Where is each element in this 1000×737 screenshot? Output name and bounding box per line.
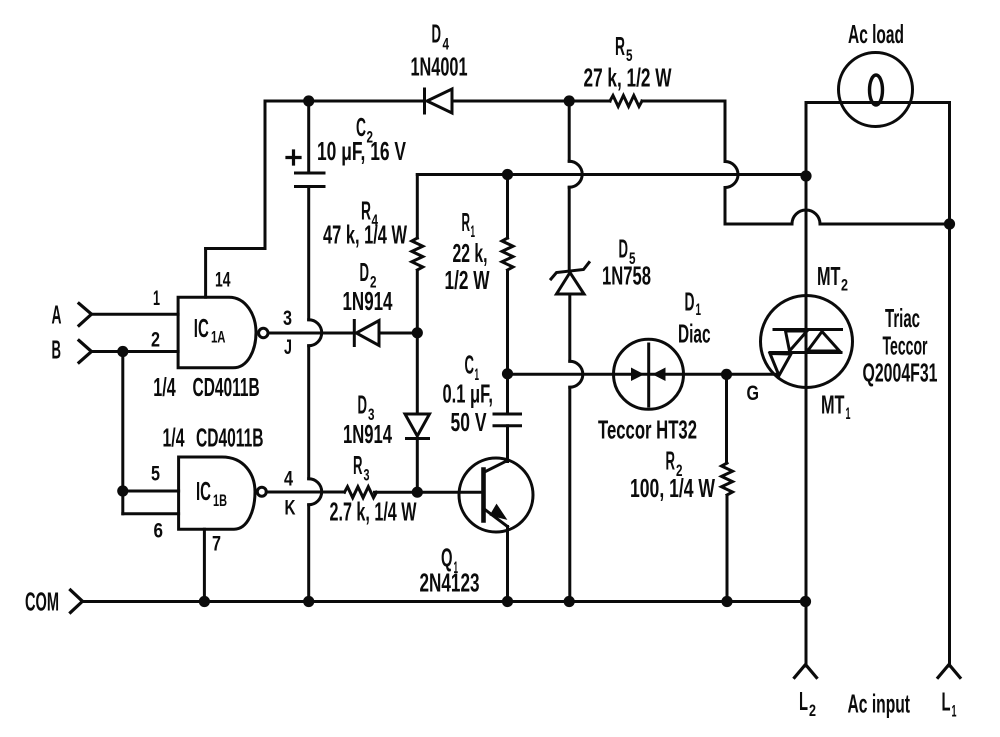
svg-text:2.7 k, 1/4 W: 2.7 k, 1/4 W: [330, 497, 417, 527]
lamp circle Ac load: [839, 53, 913, 127]
capacitor C2 plus sign: [287, 151, 300, 164]
svg-text:L: L: [799, 686, 808, 716]
junction node lamp loop 176: [800, 170, 811, 181]
wire G column to R2: [725, 374, 728, 463]
wire 224 row right part: [820, 223, 950, 226]
triac circle: [761, 296, 853, 388]
wire R4 to D2 junction: [416, 272, 419, 414]
junction node diac row C1: [502, 368, 513, 379]
wire pin7 to COM: [203, 529, 206, 601]
junction node rail zener: [564, 596, 575, 607]
IC1B output bubble: [257, 487, 266, 496]
wire zener column from top rail: [568, 101, 571, 161]
wire C2 column middle part: [307, 346, 310, 479]
zener diode D5 cathode bar: [551, 263, 589, 280]
svg-text:Ac load: Ac load: [848, 19, 904, 49]
wire hop over IC1B output row: [309, 479, 322, 505]
svg-text:4: 4: [284, 468, 293, 491]
junction node D2 R4 D3: [412, 327, 423, 338]
resistor R5: [610, 96, 642, 107]
IC1A output bubble: [259, 328, 268, 337]
wire D5 down to hop: [568, 294, 571, 361]
capacitor C2 plates: [296, 173, 325, 187]
wire hop of zener column over diac row: [570, 361, 583, 387]
wire top-left vertical from rail down: [264, 101, 267, 249]
svg-text:Triac: Triac: [885, 303, 920, 333]
svg-text:2: 2: [809, 701, 816, 720]
wire R4 column top corner: [416, 175, 419, 239]
terminal A chevron: [79, 304, 92, 326]
svg-text:R: R: [615, 31, 625, 61]
wire C2 column lower part to COM: [307, 505, 310, 602]
svg-text:K: K: [285, 497, 296, 520]
triac bottom bar: [770, 351, 841, 354]
svg-text:2: 2: [151, 329, 160, 352]
wire C1 to Q1 collector: [506, 426, 509, 462]
svg-text:COM: COM: [25, 587, 59, 617]
diode D3 cathode bar: [407, 437, 429, 440]
diac D1 circle: [614, 339, 684, 409]
wire R5 branch vertical lower: [724, 188, 727, 225]
resistor R4: [412, 238, 423, 270]
wire pin6: [123, 512, 179, 515]
svg-text:100, 1/4 W: 100, 1/4 W: [630, 473, 715, 503]
wire D2 to junction: [379, 332, 417, 335]
resistor R1: [502, 238, 513, 270]
junction node rail Q1: [502, 596, 513, 607]
svg-text:Diac: Diac: [678, 319, 711, 349]
wire lamp row through Ac load: [806, 101, 950, 104]
wire IC1A output row: [268, 332, 354, 335]
svg-text:R: R: [462, 207, 471, 237]
diode D4 triangle: [427, 89, 452, 113]
diac left arrowhead: [633, 370, 642, 379]
svg-text:1/4: 1/4: [163, 423, 185, 453]
svg-text:2N4123: 2N4123: [420, 568, 480, 598]
svg-text:1B: 1B: [213, 491, 227, 510]
wire D3 to base junction: [416, 439, 419, 493]
wire hop of 224 row over triac column: [792, 210, 820, 224]
svg-text:D: D: [358, 390, 368, 420]
wire B branch vertical: [121, 352, 124, 514]
svg-text:22 k,: 22 k,: [453, 238, 488, 268]
svg-text:MT: MT: [817, 261, 841, 291]
wire hop over IC1A output row: [309, 320, 322, 346]
diac right arrowhead: [656, 370, 665, 379]
svg-text:1N758: 1N758: [602, 261, 651, 291]
wire input A pin1: [92, 313, 179, 316]
wire top rail left segment: [265, 100, 425, 103]
junction node G: [721, 369, 732, 380]
wire C2 bottom lead upper part: [307, 187, 310, 320]
triac gate triangle: [770, 354, 791, 376]
svg-text:47 k, 1/4 W: 47 k, 1/4 W: [323, 220, 407, 250]
wire hop of R5 branch over 174 row: [725, 162, 738, 188]
svg-text:B: B: [52, 335, 62, 365]
diac vertical bar: [647, 344, 650, 406]
wire hline 174 from R4 corner to triac column: [417, 173, 806, 176]
wire L1 column: [948, 103, 951, 667]
wire R1 to diac row junction: [506, 271, 509, 374]
svg-text:2: 2: [841, 276, 848, 295]
svg-text:MT: MT: [821, 390, 845, 420]
svg-text:1N914: 1N914: [343, 419, 392, 449]
triac top bar: [774, 328, 842, 331]
wire top rail middle segment after D4: [452, 100, 610, 103]
junction node COM pin7: [199, 596, 210, 607]
transistor Q1 base bar: [481, 470, 486, 521]
svg-text:CD4011B: CD4011B: [196, 423, 264, 453]
svg-text:CD4011B: CD4011B: [193, 372, 260, 402]
junction node rail R2: [721, 596, 732, 607]
svg-text:D: D: [619, 234, 629, 264]
svg-text:Q2004F31: Q2004F31: [863, 358, 938, 388]
svg-text:1A: 1A: [211, 328, 226, 347]
wire zener column to bottom rail: [568, 387, 571, 601]
junction node top rail zener column: [564, 95, 575, 106]
wire Q1 emitter to bottom rail: [506, 527, 509, 602]
svg-text:6: 6: [154, 520, 164, 543]
svg-text:1: 1: [696, 300, 702, 319]
capacitor C2 top lead: [307, 101, 310, 173]
svg-text:1/2 W: 1/2 W: [445, 265, 490, 295]
svg-text:3: 3: [364, 466, 370, 485]
svg-text:1: 1: [153, 287, 160, 310]
wire R1 column top: [506, 175, 509, 239]
junction node R1 top: [502, 169, 513, 180]
wire bottom rail COM: [83, 600, 806, 603]
terminal L1 fork: [938, 665, 960, 678]
svg-text:D: D: [685, 287, 695, 317]
transistor Q1 collector diagonal: [484, 461, 508, 473]
wire R3 to base junction to Q1: [375, 491, 483, 494]
diode D3 triangle: [405, 414, 430, 436]
wire triac column upper: [805, 176, 808, 296]
junction node pin5: [117, 485, 128, 496]
diode D2 triangle: [356, 321, 379, 346]
capacitor C1 plates: [494, 414, 521, 426]
transistor Q1 circle: [459, 458, 533, 532]
svg-text:1N4001: 1N4001: [411, 52, 468, 82]
svg-text:Teccor: Teccor: [883, 331, 928, 361]
triac left triangle: [786, 331, 808, 351]
wire R2 to bottom rail: [726, 497, 729, 602]
NAND gate IC1B body: [179, 457, 255, 529]
junction node Q1 base: [412, 487, 423, 498]
wire triac MT1 down to L2: [805, 388, 808, 667]
NAND gate IC1A body: [178, 297, 256, 368]
wire top rail right segment to corner: [642, 100, 725, 103]
diode D2 cathode bar: [353, 321, 356, 346]
svg-text:J: J: [284, 336, 292, 359]
wire pin5: [123, 490, 179, 493]
svg-text:G: G: [747, 382, 760, 405]
zener diode D5 triangle: [557, 273, 585, 295]
svg-text:Ac input: Ac input: [848, 689, 911, 719]
svg-text:IC: IC: [194, 313, 209, 343]
wire R5 branch vertical upper: [724, 101, 727, 162]
wire lamp loop left vertical: [805, 103, 808, 177]
wire zener column to D5: [568, 187, 571, 270]
junction node input B: [117, 346, 128, 357]
svg-text:D: D: [360, 257, 370, 287]
terminal B chevron: [79, 341, 92, 363]
wire pin 14 stub into IC1A: [204, 249, 207, 298]
svg-text:27 k, 1/2 W: 27 k, 1/2 W: [584, 63, 672, 93]
svg-text:7: 7: [212, 533, 221, 556]
svg-text:L: L: [942, 687, 951, 717]
svg-text:Teccor HT32: Teccor HT32: [598, 415, 697, 445]
resistor R2: [722, 463, 733, 495]
wire input B pin2: [92, 350, 179, 353]
terminal L2 fork: [795, 665, 817, 678]
transistor Q1 emitter arrow: [492, 506, 504, 517]
svg-text:1N914: 1N914: [343, 286, 393, 316]
diode D4 cathode bar: [423, 89, 426, 113]
svg-text:R: R: [353, 450, 363, 480]
terminal COM chevron: [71, 590, 83, 613]
wire IC1B output row K: [266, 491, 344, 494]
junction node 224 row L1: [944, 218, 955, 229]
svg-text:1/4: 1/4: [153, 372, 176, 402]
resistor R3: [345, 487, 377, 498]
svg-text:C: C: [465, 350, 475, 380]
wire diac row junction down to C1: [506, 374, 509, 414]
svg-text:5: 5: [151, 463, 160, 486]
svg-text:10 μF, 16 V: 10 μF, 16 V: [317, 136, 406, 166]
wire hop of zener column over 174 row: [569, 161, 582, 187]
junction node top rail C2: [303, 95, 314, 106]
junction node COM C2: [303, 596, 314, 607]
svg-text:14: 14: [215, 269, 231, 292]
wire horizontal to pin14 column: [206, 247, 265, 250]
wire diac row: [508, 373, 780, 376]
lamp filament ellipse: [870, 75, 883, 105]
wire triac column through circle: [805, 296, 808, 388]
svg-text:IC: IC: [196, 476, 211, 506]
svg-text:R: R: [666, 446, 676, 476]
wire 224 row left part: [725, 223, 792, 226]
svg-text:1: 1: [846, 404, 851, 423]
svg-text:3: 3: [283, 307, 292, 330]
svg-text:D: D: [432, 18, 442, 48]
svg-text:50 V: 50 V: [451, 407, 487, 437]
junction node rail L2: [800, 596, 811, 607]
svg-text:0.1 μF,: 0.1 μF,: [443, 379, 494, 409]
transistor Q1 emitter diagonal: [484, 509, 508, 527]
svg-text:1: 1: [952, 702, 957, 721]
triac right triangle: [808, 332, 840, 352]
svg-text:A: A: [52, 300, 62, 330]
